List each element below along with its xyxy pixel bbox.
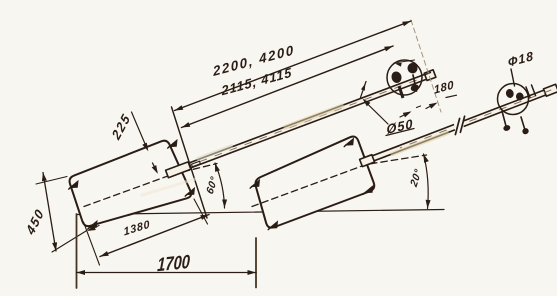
svg-text:1700: 1700 <box>157 250 191 276</box>
